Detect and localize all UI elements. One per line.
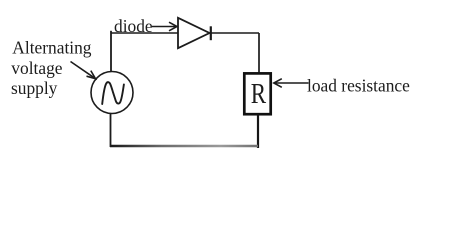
arrow from diode label to diode symbol [152,22,177,31]
svg-text:supply: supply [11,78,58,98]
wire: stub below resistor down to bottom rail [257,115,259,148]
svg-text:voltage: voltage [11,58,62,78]
svg-text:R: R [251,78,267,110]
svg-text:Alternating: Alternating [12,38,92,58]
svg-text:load resistance: load resistance [307,76,410,96]
AC source sine symbol [102,82,124,104]
wire: top horizontal from diode cathode to right corner [211,32,259,34]
resistor R (load resistance box) [244,73,270,114]
wire: bottom-left vertical from AC source to bottom rail [110,113,112,147]
wire: bottom horizontal rail [110,145,258,147]
diode D1 cathode bar [210,26,212,40]
wire: top-left horizontal from left rail to diode anode [111,32,179,34]
wire: top-left vertical from top rail down to AC source [110,31,112,72]
diode D1 (triangle) [178,18,210,48]
wire: right vertical from top corner down to resistor top [258,33,260,73]
svg-text:diode: diode [114,16,153,36]
arrow from load resistance label to resistor R [274,79,309,88]
AC source G1 (circle) [91,72,133,114]
arrow from supply label to AC source [71,62,96,79]
